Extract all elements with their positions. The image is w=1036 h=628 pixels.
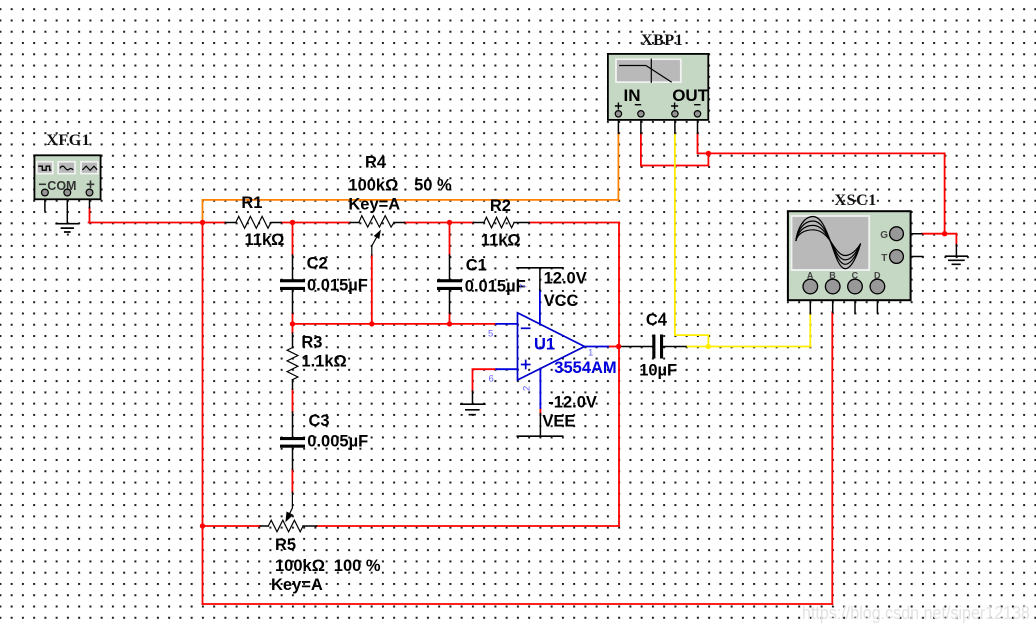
svg-text:C4: C4 (646, 311, 668, 329)
wire R1 leads (225, 222, 281, 224)
svg-text:11kΩ: 11kΩ (481, 231, 521, 249)
wire C3 leads (292, 412, 294, 469)
wire VEE red segment (539, 408, 541, 414)
wire noninverting to ground (473, 369, 497, 391)
wire C4 leads (621, 346, 686, 348)
wire XSC1 G lead (903, 233, 921, 235)
instrument XSC1 oscilloscope (788, 211, 911, 300)
svg-text:5: 5 (488, 329, 493, 340)
wire blue output (585, 346, 609, 348)
wire XSC1 A stub (809, 294, 811, 314)
svg-text:R2: R2 (490, 197, 511, 215)
node R4 wiper row (369, 321, 374, 326)
svg-text:10µF: 10µF (639, 362, 677, 380)
svg-text:D: D (874, 271, 881, 281)
node C2-R3 (290, 321, 295, 326)
svg-text:COM: COM (47, 179, 76, 193)
wire blue VEE pin2 (539, 369, 541, 409)
wire XSC1 C stub (854, 294, 856, 313)
wire VCC lead (539, 268, 541, 290)
svg-text:https://blog.csdn.net/siper121: https://blog.csdn.net/siper12138 (802, 603, 1030, 623)
wire XFG1 plus stub (89, 196, 91, 208)
COMPONENTS (236, 216, 514, 532)
wire XSC1 D stub (876, 294, 878, 313)
svg-text:VEE: VEE (542, 413, 575, 431)
wire R3 top red (292, 324, 294, 333)
wire orange to junction (202, 200, 204, 223)
node input top-left (200, 220, 205, 225)
svg-text:-12.0V: -12.0V (548, 394, 597, 412)
potentiometer R5 (268, 520, 303, 532)
wire XSC1 ground lead (955, 245, 957, 257)
R4 wiper arrow (372, 238, 377, 256)
wire C1 top (449, 223, 451, 256)
wire orange horizontal (203, 199, 619, 201)
wire XBP1 IN- down (640, 133, 642, 165)
wire C2 leads (292, 255, 294, 313)
node R4-C1-R2 (447, 220, 452, 225)
svg-text:11kΩ: 11kΩ (245, 231, 285, 249)
wire R1 to R4 (281, 222, 350, 224)
wire R3 bottom red (292, 389, 294, 412)
svg-text:C1: C1 (466, 257, 487, 275)
node C1 bottom (447, 321, 452, 326)
capacitor C3 (280, 437, 305, 440)
R5 wiper arrow (290, 492, 293, 513)
svg-text:100 %: 100 % (334, 557, 381, 575)
svg-text:R3: R3 (301, 333, 322, 351)
wire R4 to R2 (405, 222, 474, 224)
svg-text:R1: R1 (241, 194, 262, 212)
wire blue VCC pin7 (539, 290, 541, 324)
op-amp U1 triangle (518, 313, 585, 380)
svg-text:50 %: 50 % (414, 176, 452, 194)
node bode ground (706, 151, 711, 156)
wire VEE lead (539, 414, 541, 437)
bode curve (619, 66, 672, 83)
svg-text:3554AM: 3554AM (554, 359, 616, 377)
triangle wave glyph (82, 166, 97, 170)
svg-text:A: A (807, 271, 814, 281)
svg-text:XSC1: XSC1 (835, 192, 877, 209)
node op-amp output (616, 344, 621, 349)
scope waveforms (796, 217, 861, 269)
node scope ground (942, 231, 947, 236)
svg-text:IN: IN (624, 86, 641, 105)
svg-text:VCC: VCC (544, 292, 579, 310)
wire XSC1 T lead (903, 256, 922, 258)
XSC1 A-D terminals (803, 279, 818, 294)
svg-text:0.015µF: 0.015µF (465, 278, 526, 296)
wire bottom rail (203, 603, 833, 605)
wire XSC1 B stub (832, 294, 834, 313)
wire left vertical (202, 223, 204, 605)
resistor R2 (484, 217, 514, 228)
svg-text:Key=A: Key=A (271, 576, 323, 594)
wire scope B vertical (831, 312, 833, 604)
wire C2 bottom (292, 313, 294, 324)
XFG1 minus label (39, 183, 46, 185)
svg-text:1: 1 (588, 348, 593, 359)
svg-text:G: G (880, 230, 888, 241)
wire yellow jog (675, 335, 709, 346)
wire yellow scope A up (809, 314, 811, 347)
svg-text:OUT: OUT (672, 86, 709, 105)
wire blue noninverting input (496, 368, 517, 370)
square wave glyph (38, 166, 51, 170)
wire XFG1 plus down (89, 208, 91, 223)
wire G junction (922, 234, 957, 245)
wire blue inverting input (496, 323, 517, 325)
node R5 left (200, 523, 205, 528)
wire XBP1 stubs (618, 117, 697, 133)
wire above R5 wiper (291, 469, 293, 492)
svg-text:12.0V: 12.0V (544, 270, 587, 288)
potentiometer R4 (359, 216, 394, 227)
wire R5 left (203, 525, 261, 527)
wire C1 bottom (449, 313, 451, 324)
XFG1 plus label (87, 181, 95, 189)
XSC1 T terminal (890, 250, 904, 264)
capacitor C4 (652, 335, 655, 359)
instrument XBP1 bode plotter (608, 54, 709, 120)
wire R4 leads (350, 222, 404, 224)
wire R3 leads (292, 333, 294, 389)
svg-text:C3: C3 (309, 412, 330, 430)
XBP1 terminals (615, 111, 621, 117)
wire op-amp output red (608, 346, 619, 348)
wire R4 wiper down (371, 255, 373, 324)
wire XBP1 OUT- down (698, 133, 709, 153)
svg-text:XFG1: XFG1 (46, 132, 90, 149)
svg-text:2: 2 (521, 386, 532, 391)
wire IN- to OUT- net (641, 153, 709, 165)
op-amp minus sign (522, 327, 530, 329)
svg-text:R4: R4 (365, 154, 387, 172)
resistor R1 (236, 216, 271, 228)
wire XFG1 COM stub (66, 196, 68, 224)
wire orange XBP1 IN+ down (617, 133, 619, 200)
svg-text:B: B (829, 271, 836, 281)
VEE rail bar (517, 435, 562, 437)
svg-text:T: T (881, 253, 887, 264)
svg-text:6: 6 (489, 374, 494, 385)
resistor R3 (287, 348, 298, 380)
capacitor C2 (280, 279, 305, 282)
wire C2 top (292, 223, 294, 256)
node R1-C2 (290, 220, 295, 225)
wire XFG1 minus stub (44, 196, 46, 211)
VCC rail bar (517, 267, 563, 269)
instrument XFG1 function generator (34, 155, 100, 199)
wire C1 leads (449, 255, 451, 313)
svg-text:R5: R5 (275, 536, 296, 554)
wire R5 right to feedback (317, 525, 620, 527)
node yellow output (706, 344, 711, 349)
XSC1 G terminal (890, 227, 904, 241)
wire yellow output row (686, 346, 810, 348)
wire ground lead noninverting (472, 391, 474, 404)
op-amp plus sign (522, 361, 530, 369)
wire R2 right (529, 222, 619, 224)
ground (op-amp noninverting) (461, 404, 485, 415)
svg-text:C: C (852, 271, 859, 281)
wire right feedback vertical (618, 223, 620, 527)
svg-text:100kΩ: 100kΩ (348, 176, 398, 194)
wire inverting input row (293, 323, 497, 325)
svg-text:0.015µF: 0.015µF (307, 277, 368, 295)
svg-text:7: 7 (519, 284, 530, 289)
ground (XFG1 COM) (56, 224, 78, 232)
svg-text:XBP1: XBP1 (641, 32, 683, 49)
wire bode ground rail right (708, 153, 944, 233)
XFG1 terminals (42, 189, 49, 196)
svg-text:0.005µF: 0.005µF (307, 433, 368, 451)
svg-text:1.1kΩ: 1.1kΩ (301, 353, 346, 371)
wire R2 leads (473, 222, 529, 224)
wire yellow XBP1 OUT+ down (674, 133, 676, 335)
XBP1 plus-minus marks (615, 103, 701, 110)
svg-text:C2: C2 (307, 255, 328, 273)
wire top rail to R1 (89, 222, 226, 224)
sine wave glyph (60, 166, 73, 170)
capacitor C1 (437, 279, 462, 282)
svg-text:100kΩ: 100kΩ (275, 557, 325, 575)
svg-text:U1: U1 (534, 336, 555, 354)
svg-text:Key=A: Key=A (348, 196, 400, 214)
wire R5 leads (260, 525, 316, 527)
ground (XSC1) (946, 256, 968, 264)
